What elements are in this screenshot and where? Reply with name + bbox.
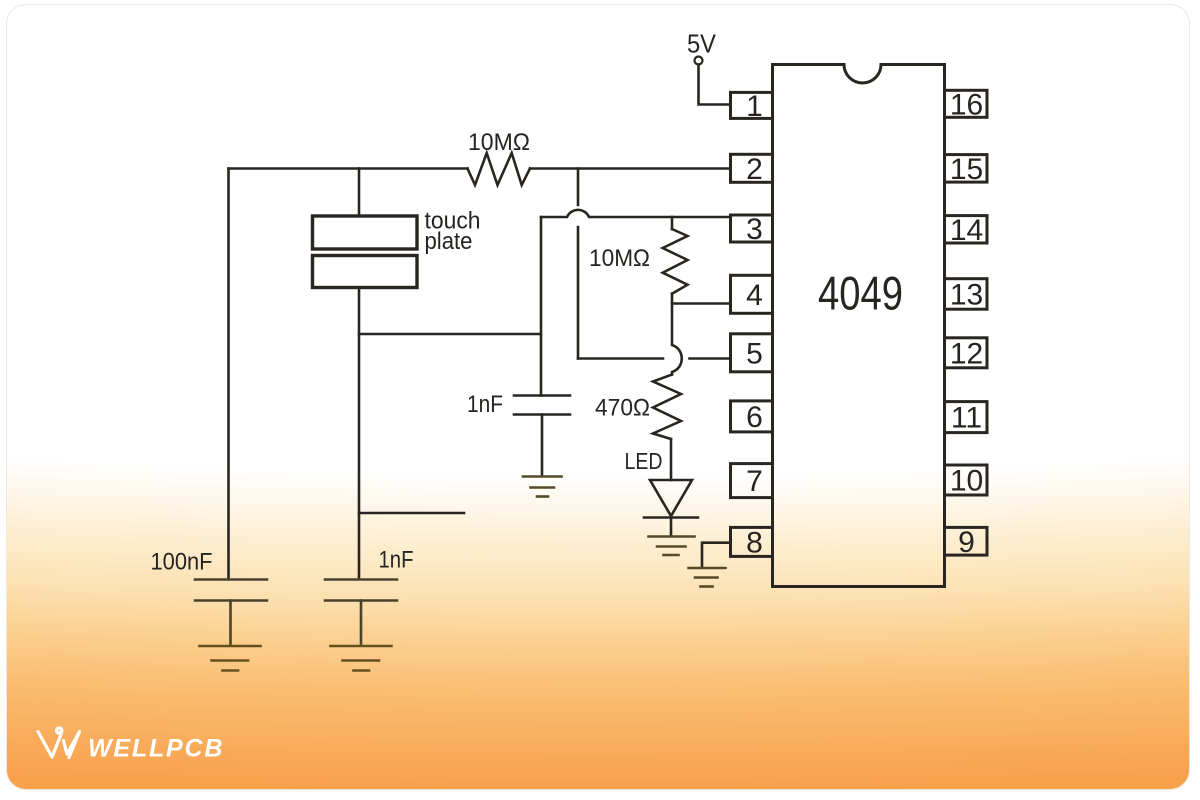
- LED D1 cathode bar: [644, 516, 698, 519]
- svg-text:14: 14: [950, 214, 983, 247]
- svg-text:3: 3: [746, 213, 763, 246]
- svg-text:1nF: 1nF: [467, 391, 503, 418]
- svg-text:6: 6: [746, 401, 763, 434]
- svg-text:11: 11: [951, 402, 982, 435]
- svg-text:10MΩ: 10MΩ: [468, 129, 530, 156]
- svg-text:9: 9: [958, 526, 975, 559]
- svg-text:13: 13: [950, 279, 983, 312]
- touch plate upper electrode: [313, 216, 418, 249]
- svg-text:plate: plate: [425, 228, 473, 255]
- svg-text:10MΩ: 10MΩ: [589, 245, 650, 272]
- svg-text:100nF: 100nF: [151, 549, 213, 576]
- svg-text:LED: LED: [625, 448, 663, 474]
- capacitor C3 100nF plates: [195, 580, 267, 646]
- wire vertical from pin3 net down to C2: [540, 217, 543, 396]
- resistor R3 470 body: [653, 375, 681, 440]
- pin 15 box: [945, 155, 988, 183]
- svg-text:4: 4: [746, 279, 763, 312]
- pin 13 box: [945, 279, 988, 310]
- svg-text:16: 16: [950, 88, 983, 121]
- wire R2 bottom down with hop over pin5 wire: [672, 304, 682, 375]
- pin 11 box: [945, 402, 988, 433]
- svg-text:5V: 5V: [687, 29, 717, 59]
- wire top horizontal left of resistor: [229, 167, 468, 170]
- wire R2 bottom to pin 4: [672, 294, 731, 304]
- svg-text:5: 5: [746, 337, 763, 370]
- svg-text:10: 10: [950, 465, 983, 498]
- wire to pin 5 (gap at resistor hop): [578, 357, 731, 360]
- wire LED cathode to ground: [670, 518, 673, 537]
- pin 1 box: [731, 92, 773, 118]
- touch plate lower electrode: [313, 256, 418, 288]
- svg-text:8: 8: [746, 527, 763, 560]
- svg-text:15: 15: [950, 153, 983, 186]
- pin 12 box: [945, 338, 988, 368]
- wire pin 3 net with hop over vertical wire: [541, 210, 731, 217]
- pin 3 box: [731, 215, 773, 242]
- svg-text:4049: 4049: [818, 267, 903, 320]
- resistor R2 10M vertical top lead: [671, 217, 674, 229]
- pin 8 box: [731, 527, 773, 556]
- wire C3 to ground: [229, 601, 232, 646]
- wire R3 to LED anode: [670, 439, 673, 480]
- capacitor C2 1nF plates: [514, 396, 570, 415]
- svg-text:1nF: 1nF: [379, 547, 414, 574]
- svg-text:WELLPCB: WELLPCB: [88, 735, 224, 763]
- svg-text:2: 2: [746, 153, 763, 186]
- wire touch plate top lead: [358, 169, 361, 217]
- wire C4 to ground: [360, 601, 363, 646]
- pin 7 box: [731, 464, 773, 498]
- wire horizontal node to cap C2 branch: [359, 333, 541, 336]
- wire pin 8 to ground: [702, 543, 731, 568]
- ground pin 8: [689, 568, 726, 587]
- wire 5V to pin 1: [699, 65, 731, 105]
- pin 10 box: [945, 465, 988, 495]
- pin 2 box: [731, 154, 773, 182]
- IC U1 4049 body with notch: [773, 65, 945, 587]
- ground C4: [331, 646, 392, 671]
- LED D1 triangle: [650, 480, 692, 516]
- wire touch plate bottom lead down to 1nF: [358, 288, 361, 580]
- pin 9 box: [945, 527, 988, 555]
- pin 14 box: [945, 216, 988, 243]
- svg-text:12: 12: [950, 337, 983, 370]
- svg-text:1: 1: [746, 90, 763, 123]
- wire top net: left corner vertical to 100nF: [227, 169, 230, 580]
- resistor R1 10M horizontal body: [468, 153, 531, 185]
- ground LED: [649, 537, 695, 556]
- pin 16 box: [945, 90, 988, 117]
- supply 5V terminal circle: [695, 57, 703, 65]
- logo WellPCB mark: [38, 728, 80, 758]
- pin 4 box: [731, 275, 773, 313]
- pin 6 box: [731, 401, 773, 432]
- wire stub branch: [359, 512, 464, 515]
- capacitor C4 1nF plates: [325, 580, 397, 646]
- ground C3: [200, 646, 261, 671]
- wire C2 to ground: [541, 415, 544, 477]
- svg-text:7: 7: [746, 465, 763, 498]
- wire resistor to pin 2: [530, 167, 731, 170]
- svg-text:470Ω: 470Ω: [595, 395, 650, 422]
- ground C2: [523, 477, 562, 497]
- wire branch from top net down (hops crossing) to pin5 wire: [577, 169, 580, 359]
- resistor R2 10M vertical body: [663, 229, 688, 294]
- pin 5 box: [731, 334, 773, 372]
